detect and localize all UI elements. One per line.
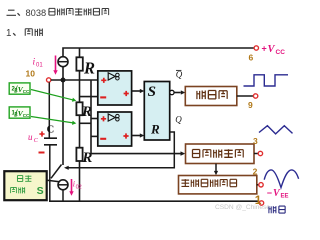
svg-text:CC: CC xyxy=(23,89,30,94)
comparator A1 plus input mark xyxy=(101,78,106,83)
svg-text:1: 1 xyxy=(6,28,11,39)
wire +Vcc top rail xyxy=(63,48,254,57)
capacitor C plates xyxy=(44,138,57,145)
square wave xyxy=(244,75,289,86)
comparator A2 symbol xyxy=(108,114,115,121)
wire R2 to R3 xyxy=(79,115,81,148)
comparator A2 plus input mark xyxy=(101,116,106,121)
svg-text:2: 2 xyxy=(253,166,258,176)
svg-text:9: 9 xyxy=(248,100,253,110)
svg-text:R: R xyxy=(150,121,160,136)
triangle wave xyxy=(259,126,293,134)
wire uC branch column xyxy=(90,80,92,154)
wire R1 to R2 (divider) xyxy=(79,71,81,103)
wire Q control route to switch xyxy=(69,132,175,168)
svg-text:Q: Q xyxy=(176,70,183,80)
label ground text 或地 xyxy=(269,206,285,213)
comparator A1 minus input mark xyxy=(100,96,106,98)
wire Qbar to inverter xyxy=(174,92,181,94)
svg-text:8038: 8038 xyxy=(26,8,47,18)
flip-flop Qbar bubble xyxy=(170,90,174,94)
svg-text:C: C xyxy=(34,138,39,144)
voltage follower box 电压跟随器 xyxy=(186,144,255,164)
terminal pin 2 xyxy=(259,183,263,187)
comparator A1 box xyxy=(98,71,132,105)
svg-text:S: S xyxy=(148,84,156,100)
title line 1 xyxy=(7,8,109,18)
wire follower output xyxy=(254,153,258,155)
svg-text:R: R xyxy=(83,59,95,78)
wire follower to sine converter xyxy=(215,164,217,172)
terminal pin 10 xyxy=(47,78,51,82)
wire inverter output xyxy=(237,95,253,97)
wire capacitor lower to ground rail xyxy=(49,145,51,201)
resistor R1 stub xyxy=(79,48,81,57)
green arrow 1/3Vcc xyxy=(31,117,73,123)
terminal pin 9 xyxy=(253,94,257,98)
svg-text:C: C xyxy=(47,125,55,136)
svg-text:+: + xyxy=(262,44,267,54)
svg-text:u: u xyxy=(28,132,33,142)
comparator A2 output plus mark xyxy=(123,133,128,138)
svg-text:V: V xyxy=(268,44,276,55)
svg-text:1: 1 xyxy=(255,193,262,207)
comparator A2 minus input mark xyxy=(100,138,106,140)
wire current source to node, down to switch xyxy=(62,67,64,165)
svg-text:02: 02 xyxy=(76,185,82,191)
wire sine output xyxy=(257,184,259,186)
svg-text:EE: EE xyxy=(281,194,289,200)
svg-text:CC: CC xyxy=(23,113,30,118)
flip-flop box xyxy=(144,82,169,141)
switch box link wire xyxy=(47,180,60,182)
uC plus mark xyxy=(39,131,44,136)
terminal pin 3 xyxy=(258,151,262,155)
terminal pin 6 xyxy=(254,46,258,50)
wire comparator A2 to flipflop R xyxy=(132,135,141,137)
arrow i01 xyxy=(55,56,57,71)
svg-text:CC: CC xyxy=(276,49,286,56)
svg-text:Q: Q xyxy=(175,115,182,125)
current source I2 xyxy=(58,180,68,190)
svg-text:3: 3 xyxy=(253,136,258,146)
svg-text:01: 01 xyxy=(36,63,43,69)
wire to voltage follower xyxy=(91,153,181,155)
resistor R1 xyxy=(76,57,82,70)
current source I1 xyxy=(58,57,68,67)
wire comparator2 inverting stub xyxy=(91,135,98,137)
green reference box 2/3Vcc xyxy=(9,83,30,94)
wire comparator1 inverting input from divider xyxy=(80,96,98,98)
green arrow 2/3Vcc xyxy=(31,90,73,100)
wire 1/3Vcc connector xyxy=(80,122,92,124)
node junction dot xyxy=(61,78,66,83)
sine wave xyxy=(264,170,298,188)
wire current source I2 to rail xyxy=(62,190,64,201)
svg-text:−: − xyxy=(267,188,272,198)
ground rail xyxy=(49,200,259,202)
wire R3 to ground rail xyxy=(79,161,81,201)
svg-text:S: S xyxy=(37,185,44,197)
wire comparator2 noninverting stub xyxy=(91,118,98,120)
wire capacitor upper xyxy=(48,82,50,138)
comparator A1 output plus mark xyxy=(124,91,129,96)
wire uC node horizontal xyxy=(51,79,98,81)
svg-text:10: 10 xyxy=(26,69,36,79)
sine converter box 正弦波变换器 xyxy=(179,176,257,194)
title line 2 xyxy=(6,28,42,39)
resistor R2 xyxy=(76,102,82,115)
switch blade xyxy=(51,165,62,179)
terminal pin 11 xyxy=(259,201,263,205)
uC minus mark xyxy=(39,152,45,154)
wire comparator A1 to flipflop S xyxy=(132,90,141,92)
inverter box 反相器 xyxy=(185,87,237,106)
arrow i02 xyxy=(71,179,73,192)
resistor R3 xyxy=(76,148,82,161)
comparator A2 box xyxy=(98,112,132,146)
electronic switch box 电子开关 xyxy=(4,171,46,200)
svg-text:6: 6 xyxy=(249,53,254,63)
green reference box 1/3Vcc xyxy=(9,107,30,118)
comparator A1 symbol xyxy=(108,73,115,80)
